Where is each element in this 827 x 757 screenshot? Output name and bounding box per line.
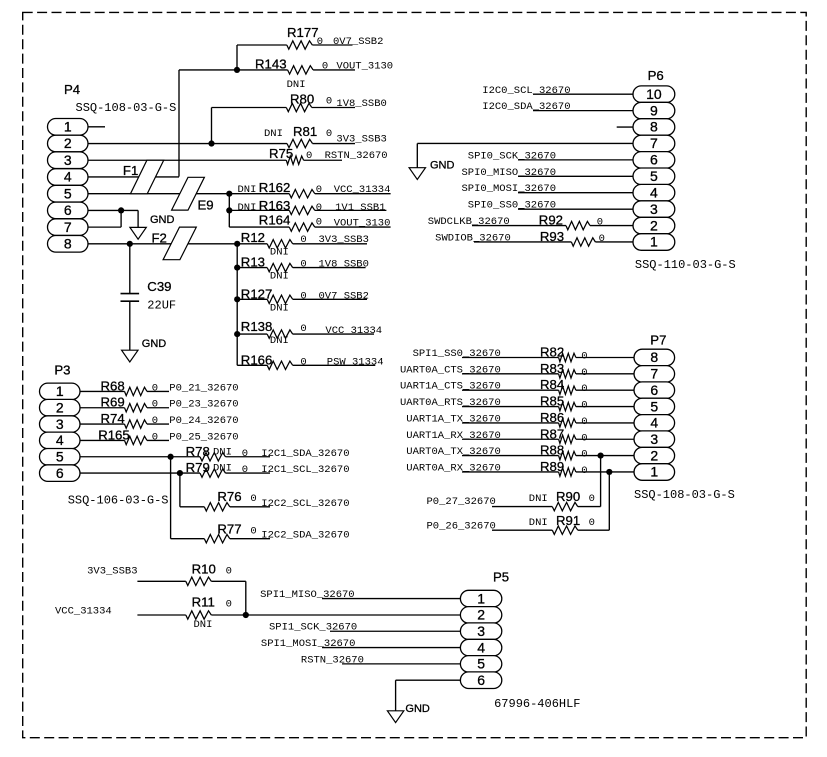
- svg-text:R68: R68: [101, 378, 125, 393]
- svg-text:1: 1: [650, 464, 658, 480]
- svg-text:SSQ-108-03-G-S: SSQ-108-03-G-S: [76, 101, 177, 115]
- svg-text:P0_21_32670: P0_21_32670: [169, 382, 238, 394]
- svg-text:4: 4: [650, 415, 658, 431]
- svg-text:DNI: DNI: [270, 335, 289, 347]
- svg-text:1: 1: [650, 234, 658, 250]
- svg-text:UART1A_RX_32670: UART1A_RX_32670: [406, 430, 501, 442]
- svg-text:6: 6: [650, 382, 658, 398]
- svg-text:R84: R84: [540, 377, 564, 392]
- svg-text:R88: R88: [540, 443, 564, 458]
- svg-text:R12: R12: [241, 230, 265, 245]
- svg-text:0: 0: [316, 184, 322, 196]
- svg-text:0: 0: [152, 415, 158, 427]
- svg-text:3: 3: [64, 152, 72, 168]
- svg-text:SPI0_MISO_32670: SPI0_MISO_32670: [461, 167, 556, 179]
- svg-text:I2C0_SCL_32670: I2C0_SCL_32670: [482, 85, 570, 97]
- svg-text:0: 0: [226, 599, 232, 611]
- svg-text:SSQ-106-03-G-S: SSQ-106-03-G-S: [68, 493, 169, 507]
- svg-text:R75: R75: [269, 146, 293, 161]
- svg-text:2: 2: [650, 217, 658, 233]
- svg-text:6: 6: [650, 152, 658, 168]
- svg-text:I2C0_SDA_32670: I2C0_SDA_32670: [482, 101, 570, 113]
- svg-text:0: 0: [581, 465, 587, 477]
- svg-text:DNI: DNI: [213, 463, 232, 475]
- svg-text:SSQ-110-03-G-S: SSQ-110-03-G-S: [635, 258, 736, 272]
- svg-text:I2C2_SDA_32670: I2C2_SDA_32670: [261, 530, 349, 542]
- svg-text:VCC_31334: VCC_31334: [55, 606, 112, 618]
- svg-text:R91: R91: [556, 513, 580, 528]
- svg-text:SPI1_SS0_32670: SPI1_SS0_32670: [413, 348, 501, 360]
- svg-text:0: 0: [250, 526, 256, 538]
- svg-text:5: 5: [56, 448, 64, 464]
- svg-text:R143: R143: [255, 57, 287, 72]
- svg-text:VOUT_3130: VOUT_3130: [334, 217, 391, 229]
- svg-text:5: 5: [650, 168, 658, 184]
- svg-text:R82: R82: [540, 345, 564, 360]
- svg-text:UART0A_RTS_32670: UART0A_RTS_32670: [400, 397, 501, 409]
- svg-text:P0_25_32670: P0_25_32670: [169, 431, 238, 443]
- svg-text:DNI: DNI: [264, 128, 283, 140]
- svg-text:0V7_SSB2: 0V7_SSB2: [319, 290, 369, 302]
- svg-text:DNI: DNI: [270, 271, 289, 283]
- svg-text:4: 4: [64, 169, 72, 185]
- svg-text:DNI: DNI: [270, 247, 289, 259]
- svg-text:R85: R85: [540, 394, 564, 409]
- svg-text:0: 0: [581, 383, 587, 395]
- svg-text:PSW_31334: PSW_31334: [327, 356, 384, 368]
- svg-text:3V3_SSB3: 3V3_SSB3: [336, 134, 386, 146]
- svg-text:1V8_SSB0: 1V8_SSB0: [336, 98, 386, 110]
- svg-text:0: 0: [300, 356, 306, 368]
- svg-text:0: 0: [316, 202, 322, 214]
- svg-text:R89: R89: [540, 459, 564, 474]
- svg-text:DNI: DNI: [529, 517, 548, 529]
- svg-text:R83: R83: [540, 361, 564, 376]
- svg-text:P4: P4: [64, 82, 80, 97]
- svg-text:E9: E9: [198, 198, 214, 213]
- svg-text:R76: R76: [217, 489, 241, 504]
- svg-text:3V3_SSB3: 3V3_SSB3: [319, 234, 369, 246]
- svg-text:DNI: DNI: [270, 303, 289, 315]
- svg-text:5: 5: [650, 398, 658, 414]
- svg-text:R69: R69: [101, 395, 125, 410]
- svg-text:9: 9: [650, 102, 658, 118]
- svg-text:6: 6: [56, 465, 64, 481]
- svg-text:2: 2: [64, 135, 72, 151]
- svg-text:R80: R80: [290, 92, 314, 107]
- svg-text:SWDIOB_32670: SWDIOB_32670: [435, 232, 511, 244]
- svg-text:R79: R79: [186, 460, 210, 475]
- svg-text:1: 1: [56, 383, 64, 399]
- svg-text:UART0A_CTS_32670: UART0A_CTS_32670: [400, 364, 501, 376]
- svg-text:5: 5: [477, 656, 485, 672]
- svg-text:C39: C39: [147, 279, 171, 294]
- svg-text:UART0A_TX_32670: UART0A_TX_32670: [406, 446, 501, 458]
- svg-text:0: 0: [306, 150, 312, 162]
- svg-text:I2C2_SCL_32670: I2C2_SCL_32670: [261, 498, 349, 510]
- svg-text:GND: GND: [150, 214, 175, 226]
- svg-text:SSQ-108-03-G-S: SSQ-108-03-G-S: [634, 488, 735, 502]
- svg-text:SWDCLKB_32670: SWDCLKB_32670: [428, 216, 510, 228]
- svg-text:R86: R86: [540, 410, 564, 425]
- svg-text:10: 10: [646, 86, 662, 102]
- svg-text:2: 2: [56, 399, 64, 415]
- svg-text:0: 0: [300, 323, 306, 335]
- svg-text:0: 0: [581, 432, 587, 444]
- svg-text:0: 0: [599, 233, 605, 245]
- svg-text:3: 3: [56, 416, 64, 432]
- svg-text:0: 0: [581, 400, 587, 412]
- svg-text:SPI0_MOSI_32670: SPI0_MOSI_32670: [461, 183, 556, 195]
- svg-text:DNI: DNI: [238, 202, 257, 214]
- svg-text:8: 8: [650, 349, 658, 365]
- svg-text:SPI0_SS0_32670: SPI0_SS0_32670: [468, 200, 556, 212]
- svg-text:DNI: DNI: [194, 619, 213, 631]
- svg-text:22UF: 22UF: [147, 299, 176, 313]
- svg-text:UART1A_CTS_32670: UART1A_CTS_32670: [400, 381, 501, 393]
- svg-text:1V1_SSB1: 1V1_SSB1: [335, 202, 385, 214]
- svg-text:6: 6: [477, 672, 485, 688]
- svg-text:DNI: DNI: [529, 493, 548, 505]
- svg-text:6: 6: [64, 202, 72, 218]
- svg-text:GND: GND: [430, 160, 455, 172]
- svg-text:F2: F2: [152, 231, 167, 246]
- svg-text:P0_26_32670: P0_26_32670: [427, 520, 496, 532]
- svg-text:0: 0: [300, 234, 306, 246]
- svg-text:R92: R92: [539, 213, 563, 228]
- svg-text:0: 0: [300, 258, 306, 270]
- svg-text:P6: P6: [648, 68, 664, 83]
- svg-text:2: 2: [477, 607, 485, 623]
- svg-text:3: 3: [477, 623, 485, 639]
- svg-text:0: 0: [226, 566, 232, 578]
- svg-text:R163: R163: [259, 198, 291, 213]
- svg-text:R87: R87: [540, 426, 564, 441]
- svg-text:3: 3: [650, 431, 658, 447]
- svg-text:0: 0: [242, 464, 248, 476]
- svg-text:67996-406HLF: 67996-406HLF: [494, 697, 580, 711]
- svg-text:0: 0: [250, 493, 256, 505]
- svg-text:0: 0: [317, 36, 323, 48]
- svg-text:R11: R11: [192, 595, 215, 610]
- svg-text:0: 0: [152, 382, 158, 394]
- svg-text:7: 7: [64, 219, 72, 235]
- svg-text:3: 3: [650, 201, 658, 217]
- svg-text:R74: R74: [101, 411, 125, 426]
- svg-text:P0_23_32670: P0_23_32670: [169, 399, 238, 411]
- svg-text:VOUT_3130: VOUT_3130: [336, 61, 393, 73]
- svg-text:P0_27_32670: P0_27_32670: [427, 496, 496, 508]
- svg-text:GND: GND: [142, 338, 167, 350]
- svg-text:1: 1: [64, 119, 72, 135]
- svg-text:F1: F1: [123, 163, 138, 178]
- svg-text:1: 1: [477, 590, 485, 606]
- svg-text:5: 5: [64, 185, 72, 201]
- svg-text:4: 4: [650, 184, 658, 200]
- svg-text:RSTN_32670: RSTN_32670: [325, 150, 388, 162]
- svg-text:8: 8: [650, 119, 658, 135]
- svg-text:0: 0: [152, 399, 158, 411]
- svg-text:R10: R10: [192, 562, 216, 577]
- svg-text:GND: GND: [405, 703, 430, 715]
- svg-text:0V7_SSB2: 0V7_SSB2: [333, 36, 383, 48]
- svg-text:0: 0: [581, 449, 587, 461]
- svg-text:0: 0: [589, 517, 595, 529]
- svg-text:SPI1_MOSI_32670: SPI1_MOSI_32670: [261, 638, 356, 650]
- svg-text:I2C1_SDA_32670: I2C1_SDA_32670: [261, 448, 349, 460]
- svg-text:UART1A_TX_32670: UART1A_TX_32670: [406, 413, 501, 425]
- svg-text:0: 0: [597, 217, 603, 229]
- svg-text:I2C1_SCL_32670: I2C1_SCL_32670: [261, 464, 349, 476]
- svg-text:3V3_SSB3: 3V3_SSB3: [87, 566, 137, 578]
- svg-text:7: 7: [650, 135, 658, 151]
- svg-text:UART0A_RX_32670: UART0A_RX_32670: [406, 462, 501, 474]
- svg-text:R164: R164: [259, 213, 291, 228]
- svg-text:0: 0: [581, 351, 587, 363]
- svg-text:4: 4: [477, 639, 485, 655]
- svg-text:P3: P3: [54, 363, 70, 378]
- svg-text:0: 0: [581, 367, 587, 379]
- svg-text:1V8_SSB0: 1V8_SSB0: [319, 258, 369, 270]
- svg-text:0: 0: [589, 493, 595, 505]
- svg-text:R162: R162: [259, 180, 291, 195]
- svg-text:0: 0: [316, 217, 322, 229]
- svg-text:R77: R77: [217, 522, 241, 537]
- svg-text:SPI0_SCK_32670: SPI0_SCK_32670: [468, 150, 556, 162]
- svg-text:0: 0: [242, 448, 248, 460]
- svg-text:8: 8: [64, 236, 72, 252]
- svg-text:SPI1_SCK_32670: SPI1_SCK_32670: [269, 622, 357, 634]
- svg-text:VCC_31334: VCC_31334: [334, 184, 391, 196]
- svg-text:DNI: DNI: [213, 446, 232, 458]
- svg-text:4: 4: [56, 432, 64, 448]
- svg-text:R127: R127: [241, 286, 273, 301]
- svg-text:0: 0: [326, 128, 332, 140]
- svg-text:R93: R93: [540, 229, 564, 244]
- svg-text:0: 0: [581, 416, 587, 428]
- svg-text:R90: R90: [556, 489, 580, 504]
- svg-text:VCC_31334: VCC_31334: [325, 325, 382, 337]
- svg-text:0: 0: [326, 96, 332, 108]
- svg-text:R138: R138: [241, 319, 273, 334]
- svg-text:DNI: DNI: [287, 79, 306, 91]
- svg-text:0: 0: [152, 431, 158, 443]
- svg-text:R81: R81: [293, 124, 317, 139]
- svg-text:0: 0: [300, 290, 306, 302]
- svg-text:0: 0: [322, 61, 328, 73]
- svg-text:7: 7: [650, 366, 658, 382]
- svg-text:SPI1_MISO_32670: SPI1_MISO_32670: [260, 589, 355, 601]
- svg-text:R78: R78: [186, 444, 210, 459]
- svg-text:R166: R166: [241, 352, 273, 367]
- svg-text:P7: P7: [650, 333, 666, 348]
- svg-text:R165: R165: [98, 427, 130, 442]
- svg-text:RSTN_32670: RSTN_32670: [301, 654, 364, 666]
- svg-text:R13: R13: [241, 254, 265, 269]
- svg-text:P5: P5: [493, 570, 509, 585]
- svg-text:DNI: DNI: [238, 184, 257, 196]
- svg-text:P0_24_32670: P0_24_32670: [169, 415, 238, 427]
- svg-text:R177: R177: [287, 25, 319, 40]
- svg-text:2: 2: [650, 447, 658, 463]
